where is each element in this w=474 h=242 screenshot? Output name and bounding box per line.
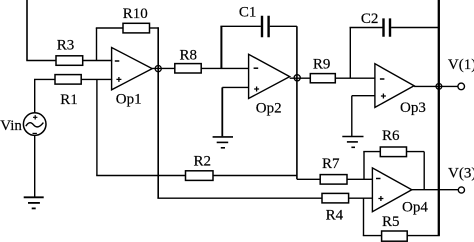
resistor R4 [322, 193, 349, 223]
wire R6 left leg [363, 152, 365, 180]
wire R1 left lead [34, 78, 55, 80]
svg-text:V(1): V(1) [448, 57, 474, 73]
node V(1) junction [436, 84, 442, 90]
svg-text:C1: C1 [239, 4, 257, 20]
svg-text:R4: R4 [326, 207, 344, 223]
resistor R8 [175, 47, 201, 73]
node Op1 output [155, 66, 161, 72]
svg-text:Vin: Vin [0, 118, 22, 134]
svg-text:Op1: Op1 [116, 92, 142, 108]
svg-text:R1: R1 [60, 92, 78, 108]
wire Op2 plus ground leg [221, 87, 223, 136]
wire Op1 output to R8 [152, 67, 175, 69]
capacitor C2 [361, 11, 390, 37]
wire R1 to Op1 non-inverting input [81, 78, 112, 80]
resistor R3 [56, 38, 83, 66]
svg-text:R2: R2 [194, 154, 212, 170]
svg-text:R7: R7 [322, 156, 340, 172]
svg-text:Op2: Op2 [256, 100, 282, 116]
wire Op3 plus ground leg [351, 96, 353, 136]
voltage source Vin [0, 113, 46, 136]
capacitor C1 [239, 4, 269, 37]
wire R2 right to Op2 output net [213, 175, 297, 177]
op-amp Op4 [372, 168, 428, 216]
op-amp Op1 [112, 48, 153, 108]
wire C1 left leg [220, 26, 222, 68]
svg-text:R9: R9 [313, 57, 331, 73]
op-amp Op3 [375, 64, 426, 116]
wire R4 to Op4 non-inverting input [349, 197, 373, 199]
wire Op4 output to terminal [412, 189, 459, 191]
resistor R2 [186, 154, 214, 181]
wire main vertical V(1) line from top edge to R5 loop [438, 0, 440, 236]
wire R9 to Op3 inverting input [335, 77, 375, 79]
svg-text:R10: R10 [123, 6, 148, 22]
wire feedback vertical through Op1 output node down to R4 feed [157, 27, 159, 198]
wire Op3 plus input [352, 95, 376, 97]
wire R5 left leg from Op4 plus net [363, 198, 365, 235]
wire Op2 output to R9 [290, 77, 311, 79]
terminal V(1) [448, 57, 474, 90]
wire Op2 output vertical from C1 down to R7 corner [296, 26, 298, 179]
wire R5 right lead [407, 235, 440, 237]
resistor R9 [310, 57, 335, 83]
wire R6 right lead [407, 151, 425, 153]
wire junction vertical R10 left to R3 net [96, 28, 98, 61]
svg-text:V(3): V(3) [448, 166, 474, 182]
resistor R7 [320, 156, 347, 184]
op-amp Op2 [249, 54, 290, 116]
wire R10 left lead [96, 27, 123, 29]
svg-text:R5: R5 [382, 214, 400, 230]
wire C2 right lead [391, 27, 439, 29]
wire Op3 output to terminal [414, 85, 458, 87]
wire R3 left lead [26, 60, 56, 62]
wire C1 left lead [220, 25, 261, 27]
ground Vin [24, 197, 44, 208]
wire R6 right leg to Op4 output [423, 152, 425, 190]
resistor R10 [123, 6, 150, 33]
wire Vin stem upper [34, 79, 36, 113]
resistor R1 [55, 75, 81, 108]
wire R3 to Op1 inverting input [83, 60, 113, 62]
wire R6 left lead [363, 151, 380, 153]
terminal V(3) [448, 166, 474, 194]
wire R10 right lead [150, 27, 159, 29]
wire R7 to Op4 inverting input [347, 178, 373, 180]
wire R8 to Op2 inverting input [201, 67, 249, 69]
wire feedback from top edge to R3 [26, 0, 28, 61]
svg-text:Op3: Op3 [400, 100, 426, 116]
wire C1 right lead [270, 25, 297, 27]
wire junction vertical Op1 plus net down to R2 [96, 79, 98, 175]
ground Op2 [213, 137, 233, 148]
svg-text:R3: R3 [57, 38, 75, 54]
resistor R6 [380, 128, 406, 156]
wire C2 left lead [350, 27, 383, 29]
wire Op2 plus input [222, 86, 249, 88]
svg-text:R6: R6 [382, 128, 400, 144]
wire corner to R7 [297, 178, 320, 180]
svg-text:Op4: Op4 [402, 200, 428, 216]
ground Op3 [342, 137, 363, 148]
resistor R5 [382, 214, 408, 241]
wire R4 feed horizontal [157, 197, 322, 199]
svg-text:C2: C2 [361, 11, 379, 27]
wire C2 left leg [349, 28, 351, 79]
wire Vin to ground [34, 135, 36, 197]
node Op2 output [294, 75, 300, 81]
svg-text:R8: R8 [180, 47, 198, 63]
wire R2 left lead [96, 175, 185, 177]
wire R5 left lead [363, 235, 382, 237]
